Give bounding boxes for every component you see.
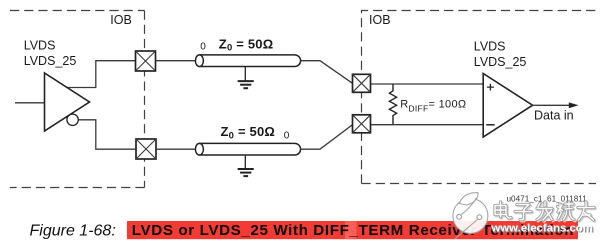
wire pad to transmission line (bottom)	[156, 148, 196, 150]
svg-text:LVDS_25: LVDS_25	[24, 54, 77, 68]
svg-text:www.elecfans.com: www.elecfans.com	[490, 222, 593, 234]
svg-text:Figure 1-68:: Figure 1-68:	[30, 222, 116, 239]
IOB boundary box right (dashed)	[362, 11, 599, 184]
svg-text:Data in: Data in	[534, 109, 574, 123]
svg-text:LVDS_25: LVDS_25	[474, 55, 527, 69]
label - (inverting input)	[486, 124, 494, 126]
IOB pad top-left	[136, 51, 156, 71]
wire top line to right pad (diagonal)	[301, 61, 353, 84]
svg-text:Z0 = 50Ω: Z0 = 50Ω	[221, 124, 276, 141]
IOB boundary box left (dashed)	[10, 11, 145, 188]
op-amp receiver triangle	[483, 74, 532, 138]
wire pad to transmission line (top)	[156, 60, 196, 62]
label + (non-inverting input)	[487, 84, 494, 91]
wire right pad to receiver -	[371, 124, 484, 126]
svg-text:RDIFF= 100Ω: RDIFF= 100Ω	[400, 99, 466, 114]
wire bottom line to right pad (diagonal)	[301, 125, 353, 150]
caption highlight bar	[127, 221, 578, 239]
watermark logo circle (elecfans)	[453, 193, 488, 240]
inversion bubble	[67, 114, 78, 125]
watermark url www.elecfans.com	[490, 222, 594, 235]
wire driver input	[15, 102, 45, 104]
wire driver P output	[66, 61, 136, 88]
wire right pad to receiver +	[371, 83, 484, 85]
ground (top line)	[238, 67, 254, 89]
svg-text:LVDS: LVDS	[474, 40, 506, 54]
svg-text:IOB: IOB	[110, 13, 132, 27]
IOB pad top-right	[353, 74, 371, 92]
svg-text:Z0 = 50Ω: Z0 = 50Ω	[219, 36, 274, 53]
resistor RDIFF	[389, 84, 396, 125]
transmission line T1 (top coax)	[195, 55, 300, 67]
ground (bottom line)	[238, 155, 254, 176]
wire driver N output	[78, 120, 136, 149]
IOB pad bottom-right	[353, 115, 371, 133]
IOB pad bottom-left	[136, 139, 156, 159]
op-amp driver triangle	[45, 73, 90, 131]
svg-text:LVDS: LVDS	[24, 39, 56, 53]
caption highlight light patch at underscore	[345, 221, 357, 239]
svg-text:0: 0	[284, 131, 290, 142]
wire data output with arrowhead	[533, 102, 579, 108]
svg-text:0: 0	[200, 42, 206, 53]
svg-text:IOB: IOB	[369, 13, 391, 27]
transmission line T2 (bottom coax)	[195, 143, 300, 155]
